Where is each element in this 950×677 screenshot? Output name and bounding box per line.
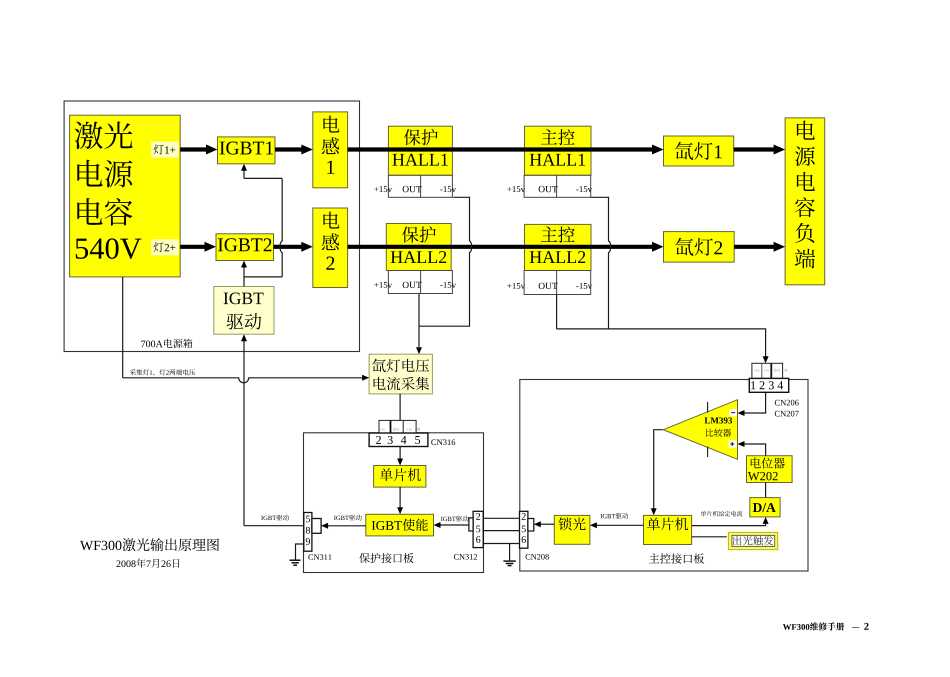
CN206 label (775, 400, 799, 417)
wire CN311 to IGBT driver (241, 334, 304, 526)
W202 text (748, 458, 785, 481)
wire MCU to DA setpoint (692, 517, 769, 526)
CN316 tiny pin labels (380, 428, 421, 431)
wire CN316 to MCU (397, 447, 403, 466)
xenon1 text (675, 142, 722, 160)
main board label (649, 553, 704, 563)
connector CN312 (473, 511, 483, 547)
negative terminal text (795, 121, 815, 269)
IGBT drive label CN312 (441, 516, 469, 522)
date text (116, 558, 179, 567)
sampling box text (372, 359, 429, 390)
MCU setpoint label (701, 511, 743, 517)
connector CN206 CN207 (749, 378, 788, 392)
connector CN316 (369, 433, 428, 447)
protection HALL1 pins text (374, 186, 456, 192)
wire sense to sampling box with hop (123, 375, 369, 383)
power supply box enclosure 700A (64, 101, 359, 352)
thick wire xenon2 to negative terminal (734, 242, 785, 252)
CN206 tiny pin labels (754, 369, 787, 372)
protection board label (359, 553, 413, 563)
wire IGBT driver to IGBT2 (241, 261, 247, 287)
main HALL2 pin box (524, 271, 591, 295)
protection interface board enclosure (304, 433, 484, 573)
CN311 pins text (306, 516, 310, 545)
main HALL2 box (525, 224, 592, 270)
wire CN312 to CN208 pin2 (483, 517, 519, 519)
main HALL2 text (530, 227, 585, 263)
IGBT1 box (218, 137, 276, 164)
wire MCU to IGBT enable (397, 487, 403, 515)
CN316 pins text (376, 436, 420, 444)
comparator noninverting input marker (729, 441, 737, 448)
IGBT drive label lock light (600, 513, 628, 519)
CN312 pins text (476, 513, 480, 543)
CN316 label (431, 439, 455, 445)
wire comparator output to MCU (651, 430, 664, 516)
op-amp U1 LM393 comparator (663, 400, 737, 460)
D/A converter box (750, 498, 780, 517)
main control interface board enclosure (520, 380, 808, 572)
wire CN312 to IGBT enable (434, 522, 469, 528)
xenon2 text (675, 238, 722, 256)
MCU box main board (644, 515, 692, 544)
MCU protection text (380, 468, 421, 481)
main HALL1 pins text (507, 186, 592, 192)
wire MCU to lock light (590, 522, 644, 528)
IGBT2 box (216, 234, 274, 261)
thick wire cap to IGBT2 (180, 242, 216, 252)
lock light text (559, 517, 586, 530)
wire CN312 to CN208 pin6 (483, 543, 519, 545)
node lamp1+ label (151, 142, 178, 158)
main HALL2 pins text (507, 283, 592, 289)
light trigger box (727, 531, 780, 552)
L1 text (322, 116, 340, 174)
laser power capacitor 540V box (70, 115, 181, 277)
IGBT driver text (224, 293, 264, 330)
ground main board (503, 544, 515, 566)
IGBT2 text (218, 238, 271, 251)
laser power cap text line1 (75, 122, 133, 150)
wire W202 to DA (765, 483, 767, 498)
wire protection HALL1 out down (419, 197, 472, 326)
wire IGBT enable to CN311 (321, 523, 366, 529)
L2 text (322, 212, 340, 270)
wire CN206 to comparator inverting input (738, 392, 766, 416)
DA text (753, 503, 776, 512)
comparator power pin top (707, 402, 709, 413)
xenon lamp 2 box (664, 232, 735, 263)
inductor L1 box (313, 112, 348, 188)
thick wire xenon1 to negative terminal (734, 145, 785, 155)
IGBT1 text (220, 141, 273, 154)
wire W202 to comparator input (738, 441, 766, 456)
inductor L2 box (313, 208, 348, 288)
laser power cap text line2 (77, 160, 132, 188)
main HALL1 box (525, 126, 592, 175)
node lamp2+ label (151, 239, 178, 255)
wire main HALL1 out down (591, 197, 769, 363)
protection HALL1 pin box (388, 175, 452, 197)
protection HALL2 text (391, 226, 446, 263)
laser power cap text 540V (76, 238, 142, 259)
CN208 pins text (522, 513, 526, 543)
connector CN311 pin (312, 519, 321, 534)
xenon voltage current sampling box (369, 354, 432, 394)
footer text (783, 622, 869, 630)
wire cap bottom sense (122, 277, 124, 378)
thick wire L1 through HALL1 to xenon1 (348, 145, 664, 155)
wire IGBT driver branch to IGBT1 (241, 164, 282, 277)
main HALL1 pin box (524, 175, 591, 197)
lamp1+ text (154, 145, 176, 155)
protection HALL2 pins text (374, 282, 456, 288)
MCU main text (647, 518, 688, 531)
wire lock light to CN208 (534, 521, 555, 527)
IGBT driver box (214, 287, 274, 335)
MCU box protection board (374, 466, 426, 488)
CN311 label (308, 554, 331, 560)
xenon lamp 1 box (664, 136, 734, 166)
700A box label (141, 339, 192, 348)
light trigger text (733, 536, 774, 546)
laser power cap text line3 (77, 198, 132, 226)
CN208 label (526, 554, 549, 560)
connector CN208 pin (528, 519, 534, 532)
CN206 pins text (751, 381, 783, 389)
CN312 label (454, 554, 477, 560)
wire CN312 to CN208 pin5 (483, 530, 519, 532)
main HALL1 text (530, 129, 585, 165)
wire protection HALL2 out to sampling (416, 294, 422, 355)
protection HALL1 box (388, 126, 452, 175)
thick wire cap to IGBT1 (180, 145, 217, 155)
potentiometer W202 box (747, 456, 793, 483)
wire main HALL2 out join (557, 295, 609, 329)
protection HALL2 box (386, 224, 451, 271)
IGBT enable text (372, 519, 428, 531)
title text (80, 538, 219, 551)
IGBT enable box (366, 514, 434, 536)
sense wire label (130, 369, 196, 375)
IGBT drive label CN311 to enable (334, 515, 362, 521)
connector CN311 (304, 513, 312, 552)
connector CN316 pin row (379, 420, 416, 433)
thick wire L2 through HALL2 to xenon2 (348, 242, 664, 252)
wire MCU to light trigger (692, 536, 729, 538)
wire sampling box to CN316 (399, 394, 401, 421)
connector CN208 (520, 511, 528, 548)
LM393 text (705, 417, 733, 436)
lamp2+ text (154, 242, 176, 252)
ground protection board (290, 544, 304, 565)
connector CN206 CN207 pin row (752, 363, 783, 378)
thick wire IGBT2 to L2 (274, 242, 313, 252)
protection HALL2 pin box (388, 271, 452, 294)
protection HALL1 text (392, 129, 447, 166)
connector CN312 pin (469, 518, 473, 531)
comparator power pin bottom (707, 447, 709, 458)
lock light box (554, 515, 590, 544)
thick wire IGBT1 to L1 (275, 145, 313, 155)
comparator inverting input marker (730, 409, 737, 416)
IGBT drive label left of CN311 (261, 515, 289, 521)
power capacitor negative terminal box (785, 118, 825, 285)
